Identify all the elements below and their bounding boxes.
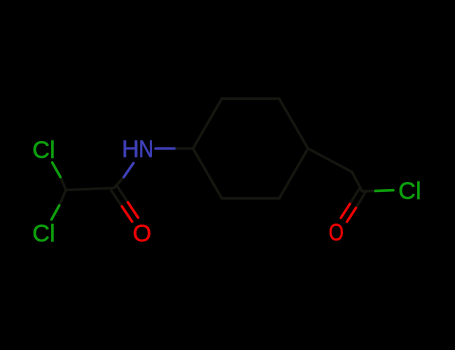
wire carbon half of bond N-ring (faint) <box>174 147 193 150</box>
wire carbon half of bond C3-Cl2 (faint) <box>59 190 66 206</box>
bond C1-N blue half <box>124 163 134 177</box>
svg-text:Cl: Cl <box>32 220 55 247</box>
svg-text:O: O <box>133 220 152 247</box>
svg-text:Cl: Cl <box>398 178 421 205</box>
wire carbon halves of double bond C2=O2 (faint) <box>350 189 365 208</box>
wire carbon halves of double bond C1=O1 (faint) <box>111 186 128 206</box>
bond C2-Cl3 green half <box>375 189 393 192</box>
double bond C2=O2 red halves <box>341 204 356 222</box>
bond Cl1-C3 green half <box>52 163 60 178</box>
double bond C1=O1 red halves <box>122 202 138 221</box>
svg-text:Cl: Cl <box>32 137 55 164</box>
benzene ring (faint carbon skeleton) <box>193 99 308 199</box>
wire carbon half of bond C3-Cl1 (faint) <box>60 177 66 190</box>
bond Cl2-C3 green half <box>52 206 60 220</box>
wire ring-CH2-C2 (faint) <box>308 149 362 192</box>
svg-text:N: N <box>139 136 154 163</box>
svg-text:H: H <box>122 136 139 163</box>
wire carbon half of bond C1-N (faint) <box>114 177 124 188</box>
svg-text:O: O <box>329 219 344 247</box>
bond N-ring blue half <box>156 147 175 150</box>
wire carbon half of bond C2-Cl3 (faint) <box>362 190 375 193</box>
wire C3-C1 (faint) <box>66 188 114 190</box>
